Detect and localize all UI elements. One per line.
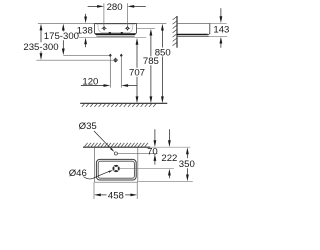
- wire: 175-300 line upper: [62, 30, 64, 31]
- wire: supply level line: [63, 54, 109, 56]
- arrow 175-300 top: [62, 24, 65, 31]
- wire: 350 line upper: [186, 154, 188, 158]
- wire: 785 line upper: [150, 35, 152, 56]
- arrow 175-300 bottom: [62, 49, 65, 56]
- floor hatching: [82, 104, 156, 107]
- arrow 458 right: [130, 194, 137, 197]
- arrow 70 bottom: [154, 154, 157, 161]
- arrow 785 bottom: [150, 96, 153, 103]
- wire: 280 extension line right: [126, 3, 128, 26]
- wire: extension line 785 level: [137, 27, 156, 29]
- arrow 235-300 bottom: [40, 53, 43, 60]
- wire: 70 stem bottom: [154, 161, 156, 165]
- arrow 785 top: [150, 29, 153, 36]
- basin elevation top edge: [94, 22, 136, 24]
- wire: 222 stem top: [168, 129, 170, 140]
- wire: 70 stem top: [154, 129, 156, 140]
- arrow 707 top: [136, 38, 139, 45]
- wire: 458 extension left: [93, 182, 95, 199]
- wire: supply right vertical: [120, 55, 122, 87]
- basin side skirt line: [177, 36, 209, 38]
- arrow 280 right: [127, 5, 134, 8]
- basin plan outline: [94, 147, 137, 182]
- wire: O46 leader: [84, 171, 111, 179]
- wire: 280 arrow tail left: [88, 5, 98, 7]
- wire: 850 line upper: [161, 30, 163, 47]
- drain O46: [113, 166, 118, 171]
- arrow 143 bottom: [220, 37, 223, 44]
- wire: extension line basin top right: [136, 22, 166, 24]
- wire: 143 stem bottom: [220, 43, 222, 47]
- wire: 143 extension top: [210, 22, 227, 24]
- overflow nub right: [121, 32, 123, 33]
- wall hatching side view: [173, 17, 177, 46]
- arrow 280 left: [97, 5, 104, 8]
- wire: 120 tail right: [128, 85, 137, 87]
- wire: 143 stem top: [220, 8, 222, 16]
- drain position target symbol: [113, 58, 118, 63]
- arrow 350 top: [186, 147, 189, 154]
- svg-text:143: 143: [213, 24, 229, 35]
- wire: 707 line upper: [136, 45, 138, 68]
- wire: 458 line left: [101, 194, 107, 196]
- arrow 350 bottom: [186, 175, 189, 182]
- arrow 458 left: [94, 194, 101, 197]
- arrow 707 bottom: [136, 96, 139, 103]
- wire: extension line basin underside: [79, 37, 146, 39]
- wire: tap hole level line: [118, 153, 158, 155]
- wall line plan view: [83, 146, 150, 148]
- wire: 350 line lower: [186, 168, 188, 174]
- wire: 222 stem bottom: [168, 175, 170, 178]
- svg-text:458: 458: [108, 191, 124, 202]
- wire: 458 line right: [125, 194, 130, 196]
- wire: drain level line: [36, 59, 114, 61]
- overflow nub left: [109, 32, 111, 33]
- tap hole circle O35: [114, 152, 117, 155]
- supply connection right diamond: [120, 54, 123, 58]
- arrow 120 left: [104, 84, 111, 87]
- basin side right edge: [207, 23, 209, 35]
- wire: 280 arrow tail right: [134, 5, 146, 7]
- wire: 458 extension right: [136, 182, 138, 199]
- arrow 850 top: [161, 24, 164, 31]
- arrow 70 top: [154, 140, 157, 147]
- wire: 120 tail left: [81, 85, 104, 87]
- wire: supply left vertical: [109, 55, 111, 87]
- mounting hole right: [126, 26, 130, 30]
- arrow 143 top: [220, 16, 223, 23]
- wall hatching plan view: [84, 143, 148, 147]
- mounting hole left: [102, 26, 106, 30]
- basin side top surface: [177, 22, 210, 24]
- wire: 850 line lower: [161, 57, 163, 97]
- wire: 707 line lower: [136, 77, 138, 97]
- wire: 235-300 line upper: [40, 30, 42, 42]
- basin elevation skirt line: [96, 35, 134, 37]
- svg-text:280: 280: [107, 2, 123, 13]
- svg-text:350: 350: [179, 159, 195, 170]
- wall line side view: [176, 16, 178, 48]
- basin side dark base band: [177, 34, 208, 36]
- arrow 138 bottom: [84, 38, 87, 45]
- floor line upper drawing: [80, 102, 167, 104]
- wire: 138 stem top: [85, 14, 87, 17]
- wire: 235-300 line lower: [40, 51, 42, 53]
- svg-text:175-300: 175-300: [44, 31, 79, 42]
- basin elevation bowl interior hint: [98, 24, 133, 32]
- basin elevation rim inner line: [96, 24, 136, 26]
- wire: drain level line plan: [120, 168, 174, 170]
- wire: 175-300 line lower: [62, 40, 64, 49]
- arrow O46 leader: [108, 170, 113, 173]
- wire: O35 leader: [94, 131, 112, 150]
- arrow 222 bottom: [168, 169, 171, 176]
- basin elevation outline: [94, 23, 136, 35]
- supply connection left diamond: [109, 54, 112, 58]
- basin elevation dark base band: [95, 33, 136, 35]
- wire: 143 extension bottom: [209, 36, 227, 38]
- arrow 850 bottom: [161, 96, 164, 103]
- svg-text:138: 138: [77, 25, 93, 36]
- bowl rim outer: [96, 159, 136, 180]
- bowl rim inner: [98, 161, 134, 178]
- wire: 280 extension line left: [103, 3, 105, 26]
- svg-text:Ø35: Ø35: [79, 121, 97, 132]
- wire: 138 stem bottom: [85, 44, 87, 47]
- arrow O35 leader: [110, 148, 114, 152]
- wire: wall line extension right: [150, 146, 190, 148]
- wire: 785 line lower: [150, 65, 152, 96]
- wire: extension line basin top left: [38, 22, 95, 24]
- wire: basin bottom extension: [138, 181, 192, 183]
- arrow 222 top: [168, 140, 171, 147]
- svg-text:222: 222: [161, 153, 177, 164]
- svg-text:70: 70: [147, 147, 158, 158]
- arrow 235-300 top: [40, 24, 43, 31]
- arrow 138 top: [84, 17, 87, 24]
- arrow 120 right: [121, 84, 128, 87]
